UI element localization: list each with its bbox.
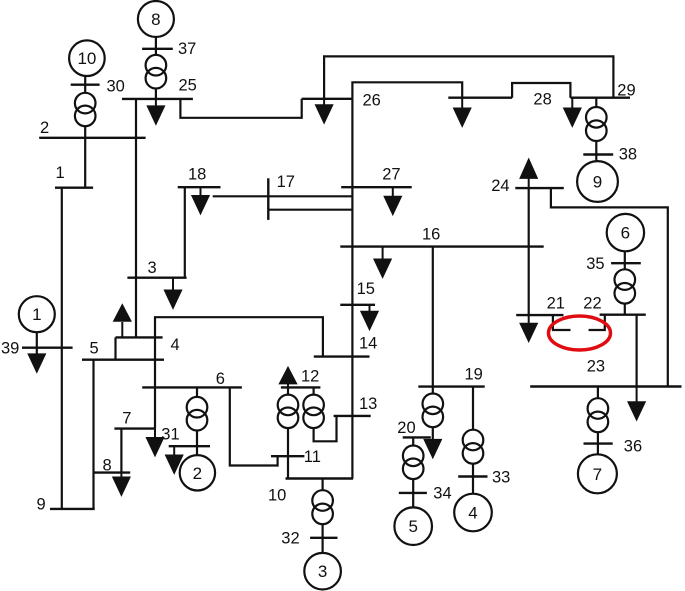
transformer T38 (9-38-29) bbox=[586, 107, 607, 141]
wire bus22 open stub bbox=[589, 315, 605, 330]
svg-text:17: 17 bbox=[277, 173, 295, 191]
svg-text:4: 4 bbox=[171, 336, 180, 354]
bus 3 bbox=[127, 277, 186, 279]
bus 29 bbox=[570, 96, 630, 98]
svg-text:24: 24 bbox=[491, 177, 509, 195]
svg-text:5: 5 bbox=[408, 517, 417, 536]
svg-text:33: 33 bbox=[492, 468, 510, 486]
wire 4-14 link bbox=[155, 317, 323, 356]
wire 26-29 top link bbox=[324, 56, 613, 98]
svg-text:19: 19 bbox=[465, 365, 483, 383]
svg-text:4: 4 bbox=[468, 504, 477, 523]
wire 16-19 vertical bbox=[432, 247, 434, 387]
load arrow bus 31 bbox=[166, 446, 182, 472]
bus 20 bbox=[403, 436, 431, 438]
svg-text:10: 10 bbox=[268, 486, 286, 504]
bus 16 bbox=[340, 245, 543, 247]
wire 20-34-G5 chain bbox=[412, 437, 414, 507]
svg-text:18: 18 bbox=[188, 166, 206, 184]
generator G3 bbox=[304, 553, 341, 590]
bus 10 bbox=[286, 477, 354, 479]
generator G6 bbox=[607, 214, 644, 251]
transformer T34 (20-34) bbox=[403, 446, 424, 480]
wire 29-38-G9 chain bbox=[595, 98, 597, 162]
transformer T32 (10-32) bbox=[312, 490, 333, 524]
svg-text:38: 38 bbox=[619, 145, 637, 163]
svg-text:8: 8 bbox=[151, 10, 160, 29]
bus 27 bbox=[341, 186, 412, 188]
transformer T37 (8-37-25) bbox=[146, 55, 167, 89]
transformer T30 (10-30-2) bbox=[75, 93, 96, 126]
svg-text:34: 34 bbox=[433, 485, 451, 503]
bus 6 bbox=[142, 386, 242, 388]
load arrow bus 27 bbox=[385, 187, 401, 214]
wire 6-31-G2 chain bbox=[196, 387, 198, 455]
bus 11 bbox=[271, 455, 304, 457]
load arrow bus 21 bbox=[521, 315, 537, 341]
wire 22-23 vertical bbox=[635, 315, 637, 387]
transformer T31 (6-31) bbox=[187, 397, 208, 431]
wire 22-35-G6 chain bbox=[624, 251, 626, 314]
wire 25-26 link bbox=[180, 99, 301, 118]
svg-text:12: 12 bbox=[301, 367, 319, 385]
wire 16-17 link bbox=[268, 209, 352, 211]
bus 39 bbox=[22, 347, 73, 349]
wire G8-37-25 chain bbox=[155, 37, 157, 99]
wire 28-29 link bbox=[512, 83, 570, 98]
svg-text:7: 7 bbox=[122, 409, 131, 427]
svg-text:5: 5 bbox=[90, 340, 99, 358]
svg-text:26: 26 bbox=[363, 92, 381, 110]
svg-text:14: 14 bbox=[359, 334, 377, 352]
bus 37 bbox=[142, 48, 173, 50]
bus 4 bbox=[116, 336, 163, 338]
svg-text:36: 36 bbox=[624, 438, 642, 456]
svg-text:6: 6 bbox=[621, 224, 630, 243]
generator G9 bbox=[577, 161, 618, 202]
load arrow bus 15 bbox=[362, 305, 378, 329]
wire 23-24 link bbox=[551, 188, 668, 386]
transformer T33 (19-33) bbox=[463, 430, 484, 464]
svg-text:1: 1 bbox=[56, 164, 65, 182]
wire 1-39-9 vertical bbox=[61, 188, 63, 509]
wire 4-6-7 vertical bbox=[154, 337, 156, 428]
wire 10-32-G3 chain bbox=[322, 479, 324, 553]
svg-text:9: 9 bbox=[37, 496, 46, 514]
svg-text:28: 28 bbox=[533, 90, 551, 108]
load arrow bus 3 bbox=[165, 278, 181, 308]
svg-text:9: 9 bbox=[593, 173, 602, 192]
wire 6-11 link bbox=[230, 387, 278, 465]
load arrow bus 23 bbox=[629, 387, 645, 420]
bus 38 bbox=[583, 153, 613, 155]
svg-text:2: 2 bbox=[40, 119, 49, 137]
svg-text:7: 7 bbox=[593, 465, 602, 484]
svg-text:21: 21 bbox=[547, 295, 565, 313]
wire 26-28 link bbox=[352, 82, 462, 99]
bus 12 bbox=[281, 386, 321, 388]
svg-text:3: 3 bbox=[148, 259, 157, 277]
wire 4-5 link bbox=[114, 337, 116, 359]
svg-text:11: 11 bbox=[304, 448, 321, 466]
wire 5-8-9 vertical bbox=[92, 360, 94, 509]
svg-text:27: 27 bbox=[382, 165, 400, 183]
wire 3-18 vertical bbox=[184, 187, 186, 278]
load arrow bus 20 bbox=[425, 440, 441, 457]
svg-text:6: 6 bbox=[216, 370, 225, 388]
bus 17 vertical bbox=[267, 178, 269, 220]
bus 35 bbox=[611, 262, 641, 264]
wire G10-30-2-1 vertical bbox=[84, 76, 86, 188]
svg-text:2: 2 bbox=[193, 464, 202, 483]
bus 18 bbox=[178, 186, 221, 188]
bus 30 bbox=[71, 83, 100, 85]
svg-text:37: 37 bbox=[178, 40, 196, 58]
load arrow bus 39 bbox=[29, 354, 45, 371]
bus 21 bbox=[516, 314, 563, 316]
svg-text:29: 29 bbox=[617, 81, 635, 99]
wire 12-11-10 left chain bbox=[287, 387, 289, 478]
generator G2 bbox=[180, 455, 215, 490]
bus 1 bbox=[55, 186, 93, 188]
load arrow bus 29 bbox=[564, 98, 580, 126]
generator G5 bbox=[394, 507, 432, 545]
bus 7 bbox=[114, 427, 155, 429]
load arrow bus 8 bbox=[113, 473, 129, 495]
bus 19 bbox=[418, 385, 484, 387]
transformer T12-11 bbox=[278, 395, 299, 429]
svg-text:32: 32 bbox=[281, 530, 299, 548]
bus 14 bbox=[314, 355, 370, 357]
load arrow bus 28 bbox=[454, 98, 470, 126]
bus 36 bbox=[584, 442, 613, 444]
bus 33 bbox=[458, 475, 487, 477]
svg-text:8: 8 bbox=[103, 456, 112, 474]
gen arrow bus 24 (up) bbox=[521, 160, 537, 188]
bus 5 bbox=[82, 359, 164, 361]
generator G4 bbox=[454, 494, 492, 532]
svg-text:39: 39 bbox=[1, 340, 19, 358]
svg-text:1: 1 bbox=[32, 305, 41, 324]
generator G7 bbox=[578, 454, 617, 493]
wire 19-33-G4 chain bbox=[472, 387, 474, 494]
gen arrow bus 4 (up) bbox=[114, 305, 130, 337]
wire 19-20 transformer drop bbox=[432, 387, 434, 450]
wire 24-16-21 vertical bbox=[528, 188, 530, 315]
svg-text:31: 31 bbox=[161, 425, 179, 443]
wire 26-27-16-15-14-13-10 vertical bbox=[351, 99, 353, 479]
generator G10 bbox=[69, 40, 105, 76]
bus 24 bbox=[515, 187, 564, 189]
wire bus21 open stub bbox=[553, 315, 571, 330]
svg-text:20: 20 bbox=[397, 419, 415, 437]
svg-text:25: 25 bbox=[179, 77, 197, 95]
bus 9 bbox=[50, 508, 95, 510]
bus 8 bbox=[94, 471, 131, 473]
transformer T12-13 bbox=[303, 395, 324, 429]
svg-text:35: 35 bbox=[586, 255, 604, 273]
wire G1-39 chain bbox=[36, 332, 38, 365]
wire 17-18 link bbox=[213, 195, 353, 197]
bus 25 bbox=[122, 98, 193, 100]
bus 26 bbox=[302, 98, 353, 100]
svg-text:22: 22 bbox=[583, 295, 601, 313]
svg-text:13: 13 bbox=[359, 395, 377, 413]
transformer T19-20 bbox=[423, 394, 444, 428]
svg-text:3: 3 bbox=[318, 562, 327, 581]
gen arrow bus 12 (up) bbox=[280, 368, 296, 387]
bus 28 bbox=[448, 96, 512, 98]
bus 23 bbox=[530, 385, 681, 387]
transformer T35 (6-35-22) bbox=[615, 269, 636, 303]
load arrow bus 16 bbox=[375, 247, 391, 277]
svg-text:30: 30 bbox=[107, 78, 125, 96]
svg-text:15: 15 bbox=[357, 280, 375, 298]
generator G1 bbox=[19, 296, 55, 332]
load arrow bus 7 bbox=[147, 429, 163, 455]
load arrow bus 25 bbox=[148, 99, 164, 124]
svg-text:23: 23 bbox=[587, 358, 605, 376]
load arrow bus 26 bbox=[316, 99, 332, 123]
wire 23-36-G7 chain bbox=[597, 387, 599, 455]
bus 34 bbox=[399, 492, 427, 494]
bus 13 bbox=[334, 415, 371, 417]
wire 25-2-3-4 vertical bbox=[135, 99, 137, 338]
transformer T36 (23-36) bbox=[588, 398, 609, 432]
wire 12-13 right chain bbox=[314, 387, 337, 441]
red fault highlight ellipse between bus 21 and 22 bbox=[549, 316, 611, 350]
bus 22 bbox=[600, 314, 646, 316]
wire 7-8 link bbox=[120, 429, 122, 473]
generator G8 bbox=[138, 1, 174, 37]
svg-text:16: 16 bbox=[422, 225, 440, 243]
bus 2 bbox=[39, 137, 145, 139]
bus 31 bbox=[169, 445, 210, 447]
svg-text:10: 10 bbox=[77, 49, 96, 68]
bus 15 bbox=[340, 304, 375, 306]
load arrow bus 18 bbox=[193, 187, 209, 213]
bus 32 bbox=[310, 537, 337, 539]
